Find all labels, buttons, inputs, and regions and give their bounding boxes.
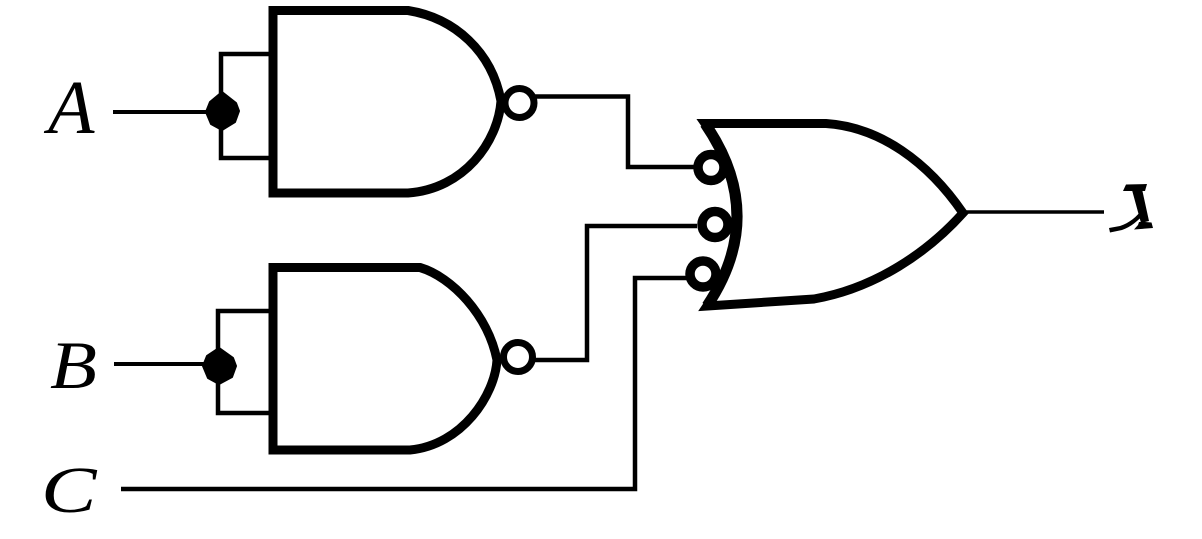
wire input A <box>113 110 210 114</box>
wire U3 output <box>964 210 1104 214</box>
wire A branch to NAND U1 inputs <box>221 54 273 158</box>
wire U1 output to U3 input 1 <box>531 97 694 168</box>
output label X <box>1109 184 1153 233</box>
input label B <box>50 327 97 403</box>
wire input C to U3 input 3 <box>121 278 688 489</box>
junction A node <box>206 92 239 130</box>
bubble U2 output <box>504 343 533 372</box>
input label C <box>41 454 97 527</box>
svg-text:A: A <box>43 66 95 150</box>
junction B node <box>203 348 236 384</box>
nand gate U1 body <box>273 11 501 194</box>
bubble U3 input 3 <box>690 261 716 287</box>
wire U2 output to U3 input 2 <box>534 226 697 360</box>
wire input B <box>114 362 207 366</box>
bubble U3 input 1 <box>698 155 724 181</box>
or gate U3 body <box>705 124 963 307</box>
nand gate U2 body <box>273 268 497 451</box>
wire B branch to NAND U2 inputs <box>218 311 273 413</box>
input label A <box>43 66 95 150</box>
svg-text:C: C <box>41 454 97 527</box>
svg-text:B: B <box>50 327 97 403</box>
bubble U1 output <box>505 89 534 118</box>
bubble U3 input 2 <box>702 212 728 238</box>
